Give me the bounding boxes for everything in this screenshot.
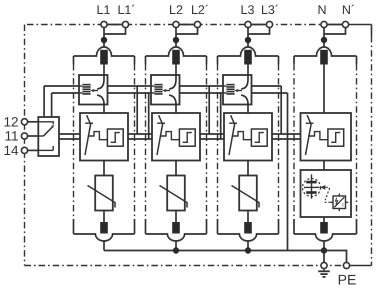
module boundary L3 (dash-dot outline with conductor arches) [218,47,279,241]
thermal disconnector L2 [172,222,180,234]
wire trigger N to N-PE gap [323,161,325,171]
wire: riser L3-N gap to bottom bus [287,93,289,251]
wire spark gap L1 to trigger circuit [103,105,105,114]
wire L1 terminal down [103,25,105,48]
svg-text:L2´: L2´ [191,3,209,17]
svg-text:N´: N´ [342,3,355,17]
triggered spark gap L2 (box with arc chute, horn gap, arrow) [151,75,180,105]
disconnector fuse N [320,50,328,65]
wire terminal pair link L1 [104,24,126,26]
junction node L2 on PE bus [173,247,179,253]
wire L1´ link [104,25,126,35]
wire contact box riser 2 [51,93,53,117]
wire: drop L3-N gap upper [280,86,282,134]
wire L2 terminal down [175,25,177,48]
wire N-PE gap down [323,217,325,222]
wire varistor L3 down [247,211,249,223]
wire L3´ link [248,25,270,35]
wire spark gap L3 to trigger circuit [247,105,249,114]
wire L3 terminal down [247,25,249,48]
wire: PE bottom bus [104,250,324,252]
triggered spark gap L3 (box with arc chute, horn gap, arrow) [223,75,252,105]
wire contact box riser 1 [43,86,45,122]
wire N´ link [324,25,346,35]
ground symbol [318,269,330,277]
wire: drop L2-L3 gap upper [208,86,210,134]
junction node L2 [173,37,179,43]
PE terminal circle [343,262,349,268]
svg-text:14: 14 [3,143,19,158]
wire trigger L1 to varistor [103,161,105,176]
terminal L1´ [122,21,128,27]
wire fuse L1 down [103,64,105,75]
wire terminal pair link L2 [176,24,198,26]
wire trigger L2 to varistor [175,161,177,176]
disconnector fuse L1 [100,50,108,65]
wire terminal pair link L3 [248,24,270,26]
N-PE spark gap (gas discharge gap with trigger circuit) [301,170,352,217]
disconnector fuse L2 [172,50,180,65]
wire: drop L1-L2 gap lower [148,93,150,139]
varistor L2 [160,176,188,211]
junction node N [321,37,327,43]
wire N terminal down [323,25,325,48]
trigger and monitoring circuit L2 (switch + pulse + level detector) [152,113,200,161]
svg-text:L2: L2 [169,3,183,17]
svg-text:PE: PE [338,272,357,288]
junction node PE [321,247,327,253]
wire: drop L1-L2 gap upper [136,86,138,134]
terminal L1 [101,21,107,27]
wire: upper trigger bus (spark-gap level, line 2) [52,92,288,94]
wire: monitoring bus line 2 (trigger level) [59,138,301,140]
terminal L2 [173,21,179,27]
wire varistor L1 down [103,211,105,223]
thermal disconnector N [320,222,328,234]
svg-text:12: 12 [3,114,18,129]
varistor L3 [232,176,260,211]
svg-text:N: N [317,3,326,17]
junction node L1 [101,37,107,43]
wire trigger L3 to varistor [247,161,249,176]
wire terminal pair link N [324,24,346,26]
trigger and monitoring circuit N (switch + pulse + level detector) [301,113,352,161]
wire fuse L3 down [247,64,249,75]
wire fuse L2 down [175,64,177,75]
terminal 14 [28,149,39,151]
junction node L3 on PE bus [245,247,251,253]
varistor L1 [88,176,116,211]
ground terminal circle [321,262,327,268]
terminal L2´ [194,21,200,27]
wire disconnector L3 to PE bus [247,241,249,251]
svg-text:L1: L1 [97,3,111,17]
wire: upper trigger bus (spark-gap level, line 1) [44,85,281,87]
disconnector fuse L3 [244,50,252,65]
wire L2´ link [176,25,198,35]
svg-text:L1´: L1´ [117,3,135,17]
wire: drop L2-L3 gap lower [220,93,222,139]
junction node L3 [245,37,251,43]
remote signalling changeover contact box [38,117,59,156]
wire PE node to PE terminal [324,251,347,263]
thermal disconnector L1 [100,222,108,234]
wire disconnector N to PE node [323,241,325,263]
module boundary L1 (dash-dot outline with conductor arches) [74,47,135,241]
wire spark gap L2 to trigger circuit [175,105,177,114]
terminal 12 [28,121,39,123]
triggered spark gap L1 (box with arc chute, horn gap, arrow) [79,75,108,105]
terminal N´ [342,21,348,27]
module boundary L2 (dash-dot outline with conductor arches) [146,47,207,241]
svg-text:11: 11 [4,129,18,144]
enclosure frame (dash-dot) [25,25,372,266]
trigger and monitoring circuit L1 (switch + pulse + level detector) [80,113,128,161]
terminal 11 [28,135,39,137]
wire varistor L2 down [175,211,177,223]
wire: monitoring bus line 1 (trigger level) [59,133,301,135]
module boundary N (dash-dot outline with conductor arches) [294,47,357,241]
terminal L3´ [266,21,272,27]
wire disconnector L1 to PE bus [103,241,105,251]
trigger and monitoring circuit L3 (switch + pulse + level detector) [224,113,272,161]
wire fuse N down [323,64,325,113]
svg-text:L3: L3 [241,3,255,17]
svg-text:L3´: L3´ [261,3,279,17]
thermal disconnector L3 [244,222,252,234]
terminal L3 [245,21,251,27]
terminal N [321,21,327,27]
wire disconnector L2 to PE bus [175,241,177,251]
